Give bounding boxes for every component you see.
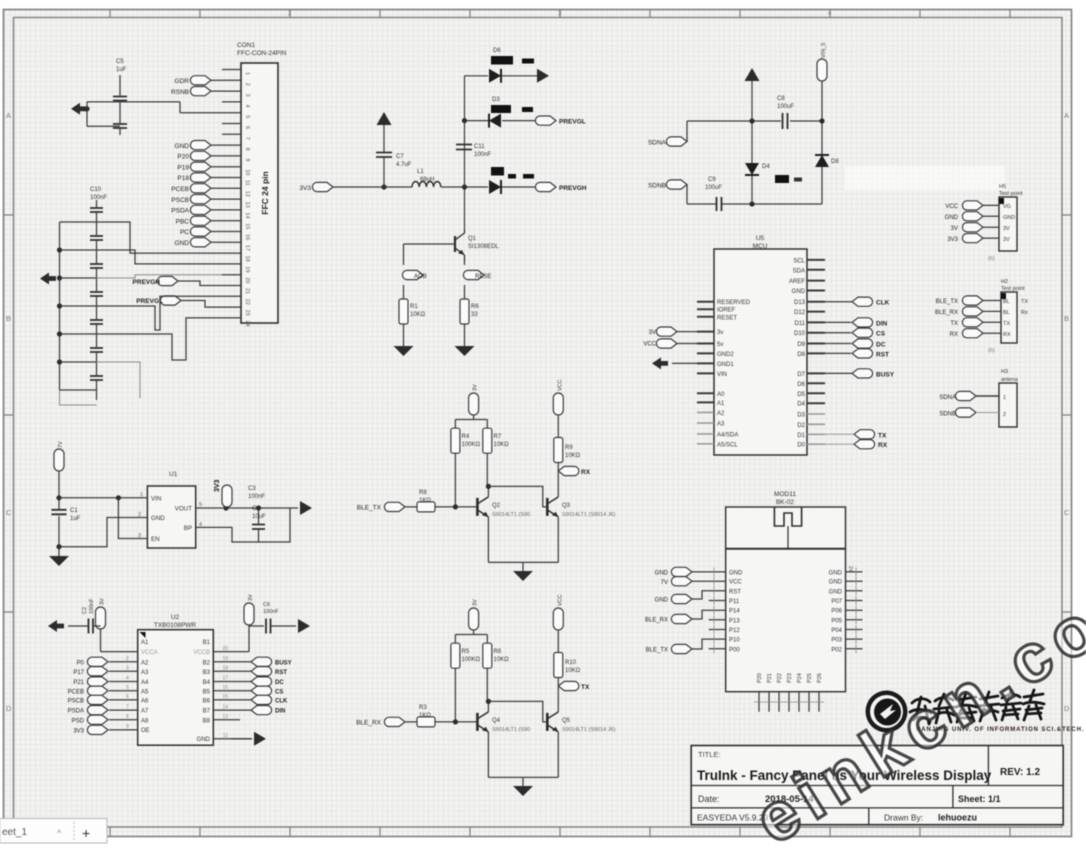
svg-text:A4/SDA: A4/SDA	[717, 432, 738, 438]
wire Q5 emitter	[557, 732, 559, 778]
svg-text:A: A	[1064, 111, 1069, 120]
svg-text:RST: RST	[275, 670, 287, 676]
net label RX	[854, 440, 875, 449]
svg-text:1: 1	[244, 72, 250, 75]
wire BP	[196, 508, 290, 542]
svg-text:100uF: 100uF	[777, 104, 794, 110]
net pill AOB on base	[402, 270, 423, 279]
wire row1	[465, 75, 539, 77]
svg-text:33: 33	[471, 312, 478, 318]
svg-text:SI1308EDL: SI1308EDL	[468, 244, 499, 250]
net pill PSCB pin13	[190, 195, 211, 204]
svg-text:P07: P07	[831, 599, 842, 605]
module MOD11 left pin ticks	[713, 567, 715, 653]
svg-text:BK-02: BK-02	[776, 499, 794, 506]
svg-text:BUSY: BUSY	[876, 371, 895, 378]
svg-text:1uF: 1uF	[116, 67, 127, 73]
university name calligraphy char 6	[1023, 690, 1044, 720]
svg-text:100nF: 100nF	[90, 195, 107, 201]
svg-text:5v: 5v	[717, 342, 723, 348]
svg-text:P14: P14	[729, 609, 740, 615]
net pill CS B5	[251, 686, 272, 695]
svg-text:B4: B4	[203, 680, 211, 686]
net label CLK	[852, 297, 873, 306]
svg-text:14: 14	[222, 704, 228, 710]
svg-text:RST: RST	[876, 351, 889, 358]
svg-text:11: 11	[223, 733, 228, 739]
resistor R8	[417, 502, 435, 512]
svg-text:SDA: SDA	[793, 268, 805, 274]
svg-text:R6: R6	[471, 304, 479, 310]
wire GND2 to RST pin	[692, 591, 709, 599]
svg-text:PC: PC	[180, 229, 189, 236]
wire pin22 route	[97, 296, 223, 330]
svg-text:BLE_RX: BLE_RX	[645, 618, 668, 624]
wire C7 top	[383, 125, 385, 152]
svg-text:GND: GND	[792, 289, 806, 295]
svg-text:D8: D8	[797, 352, 805, 358]
svg-text:D13: D13	[794, 300, 806, 306]
wire VOUT	[196, 507, 298, 509]
svg-text:3V: 3V	[473, 384, 479, 391]
power flag above C7	[377, 112, 392, 125]
resistor R7	[483, 428, 492, 453]
net flag 3V vpill VCCB	[244, 603, 254, 625]
svg-text:11: 11	[244, 180, 250, 186]
IC U2 left pin stubs	[109, 652, 138, 730]
svg-text:DC: DC	[275, 680, 284, 686]
svg-text:P21: P21	[767, 673, 773, 683]
svg-text:P17: P17	[73, 670, 84, 676]
wire diode D5 to pill	[502, 186, 535, 188]
svg-text:PSCB: PSCB	[171, 197, 189, 204]
wire pin20 route	[97, 275, 223, 278]
svg-text:P26: P26	[817, 673, 823, 683]
wire R5 bottom to base	[455, 668, 487, 722]
svg-text:3: 3	[244, 94, 250, 97]
net flag 3V3 vertical pill	[222, 485, 232, 507]
wire Q4 collector	[487, 701, 489, 712]
svg-text:P22: P22	[777, 673, 783, 683]
svg-text:VIN: VIN	[717, 372, 727, 378]
sheet tab	[0, 819, 107, 844]
svg-text:A7: A7	[141, 709, 149, 715]
svg-text:R7: R7	[494, 434, 502, 440]
power flag VGH right arrow	[537, 69, 549, 83]
power flag right VOUT	[300, 501, 312, 515]
wire center rail	[751, 81, 753, 204]
module MOD11 left pin stubs	[709, 572, 726, 649]
svg-text:3: 3	[126, 666, 129, 672]
module MOD11 bottom pin ticks	[754, 701, 824, 703]
wire PREVGH to pin21	[178, 281, 222, 286]
svg-text:RESE: RESE	[475, 274, 491, 280]
svg-text:A1: A1	[141, 640, 149, 646]
svg-text:BLE_TX: BLE_TX	[646, 648, 668, 654]
svg-text:Test point: Test point	[999, 191, 1023, 197]
wire emitter rail	[488, 562, 558, 571]
header H2 right notes	[1021, 299, 1028, 316]
svg-text:19: 19	[244, 266, 250, 272]
wire emitter rail	[488, 777, 558, 786]
svg-text:TXB0108PWR: TXB0108PWR	[154, 622, 197, 629]
svg-text:10KΩ: 10KΩ	[494, 442, 510, 448]
wire pill to R8	[405, 506, 417, 508]
svg-text:1: 1	[1003, 395, 1006, 401]
junction rail main	[462, 184, 467, 189]
svg-text:17: 17	[244, 245, 250, 251]
svg-text:R10: R10	[565, 660, 577, 666]
wire row2	[465, 120, 538, 122]
svg-text:8: 8	[126, 714, 129, 720]
IC U5 right pin names	[789, 258, 806, 448]
bottom whitespace	[0, 843, 1086, 854]
net label DIN	[852, 318, 873, 327]
transistor Q1	[454, 236, 456, 252]
net pill GND pin17	[190, 238, 211, 247]
capacitor C7 plates	[376, 153, 392, 158]
svg-text:U1: U1	[169, 471, 178, 478]
svg-text:3V: 3V	[473, 599, 479, 606]
wire Q3 emitter	[557, 517, 559, 563]
svg-text:VCC: VCC	[643, 342, 656, 348]
wire base pill to R1	[403, 285, 405, 299]
module MOD11 bottom pin stubs	[759, 692, 819, 712]
svg-text:6: 6	[244, 126, 250, 129]
svg-text:6: 6	[126, 694, 129, 700]
net flag 7V vertical pill	[54, 449, 64, 471]
svg-text:1KΩ: 1KΩ	[419, 713, 431, 719]
svg-text:P00: P00	[729, 647, 740, 653]
diode D6 body mark	[491, 56, 513, 65]
university logo ring	[866, 691, 908, 733]
svg-text:TX: TX	[581, 684, 590, 691]
svg-text:13: 13	[222, 714, 228, 720]
svg-text:4.7uF: 4.7uF	[396, 162, 412, 168]
svg-text:3V: 3V	[1003, 237, 1010, 243]
junction EN branch	[116, 495, 121, 500]
wire PREVGL to pin23	[181, 301, 222, 308]
svg-text:DC: DC	[876, 342, 886, 349]
wire pin3	[211, 90, 222, 92]
net label TX	[854, 430, 875, 439]
svg-text:S9014LT1 (S90: S9014LT1 (S90	[492, 727, 530, 733]
ground flag left of C5	[71, 103, 87, 115]
wire C6 right	[271, 625, 297, 627]
wires H2	[983, 301, 1001, 334]
svg-text:A3: A3	[141, 670, 149, 676]
diode D3 dash	[522, 107, 533, 112]
svg-text:BLE_RX: BLE_RX	[935, 310, 958, 316]
svg-text:TX: TX	[950, 321, 958, 327]
svg-text:D: D	[6, 704, 12, 713]
header H2 body	[1001, 292, 1017, 343]
svg-text:TX: TX	[878, 432, 887, 439]
svg-text:17: 17	[222, 676, 228, 682]
svg-text:100KΩ: 100KΩ	[462, 657, 481, 663]
wire right rail	[821, 81, 823, 204]
wire EN branch	[118, 498, 147, 539]
connector CON1 pin numbers	[244, 72, 250, 327]
svg-text:C11: C11	[474, 144, 485, 150]
transistor Q5	[547, 712, 558, 732]
svg-text:DIN: DIN	[275, 709, 285, 715]
svg-text:VCC: VCC	[557, 594, 563, 606]
connector CON1 pin stubs 1-24	[222, 70, 241, 318]
wire C5 top loop	[87, 75, 222, 135]
wire Q2 collector	[487, 486, 489, 497]
svg-text:VIN: VIN	[151, 495, 161, 502]
svg-text:D2: D2	[797, 423, 805, 429]
diode D3 body mark	[491, 105, 511, 113]
wire Q4 emitter	[487, 732, 489, 778]
diode D4 body mark	[775, 175, 789, 183]
wire C4 leads	[258, 508, 260, 542]
svg-text:A6: A6	[141, 699, 149, 705]
title block drawnby divider	[868, 808, 870, 825]
svg-text:A8: A8	[141, 718, 149, 724]
title block sheet divider	[952, 786, 954, 808]
net pill TX output	[558, 681, 579, 690]
wire D0 to RX	[825, 443, 854, 445]
wire VCCB	[213, 625, 264, 652]
svg-text:RX: RX	[950, 332, 958, 338]
svg-text:9: 9	[126, 724, 129, 730]
module MOD11 body	[726, 507, 846, 692]
svg-text:D5: D5	[797, 392, 805, 398]
left row ticks	[4, 215, 14, 612]
module MOD11 bottom pin names rotated	[757, 673, 823, 683]
svg-text:B: B	[1064, 314, 1069, 323]
svg-text:D1: D1	[797, 433, 805, 439]
boost rail vertical	[464, 76, 466, 230]
svg-text:PREVGL: PREVGL	[136, 298, 163, 305]
junction base R4	[453, 504, 458, 509]
svg-text:GND: GND	[151, 515, 165, 522]
resistor R5	[451, 643, 460, 668]
svg-text:B2: B2	[203, 660, 211, 666]
header H2 pin names	[1003, 299, 1011, 338]
wire R6 to ground	[464, 324, 466, 346]
svg-text:GND: GND	[655, 598, 669, 604]
svg-text:3V3: 3V3	[947, 237, 958, 243]
svg-text:GND: GND	[829, 580, 843, 586]
svg-text:5: 5	[244, 115, 250, 118]
svg-text:VCCB: VCCB	[193, 650, 210, 656]
svg-text:D12: D12	[794, 310, 806, 316]
svg-text:PSCB: PSCB	[68, 699, 84, 705]
svg-text:R8: R8	[419, 490, 427, 496]
ground shifter2	[513, 786, 533, 796]
svg-text:REV: 1.2: REV: 1.2	[1000, 767, 1040, 778]
wire D8 to RST	[825, 352, 851, 354]
svg-text:CLK: CLK	[275, 699, 288, 705]
capacitor chain vertical wire	[96, 200, 98, 400]
IC U5 right pin stubs	[807, 260, 825, 403]
svg-text:PSDA: PSDA	[68, 709, 84, 715]
header H5 pin names	[1003, 204, 1015, 243]
wire ground to GND1	[672, 362, 697, 364]
ground shifter1	[513, 571, 533, 581]
svg-text:P11: P11	[729, 599, 740, 605]
diode D4	[745, 163, 759, 175]
svg-text:3: 3	[138, 533, 141, 539]
svg-text:RSNB: RSNB	[171, 89, 189, 96]
IC U2 pin1 mark	[140, 632, 146, 638]
svg-text:RESERVED: RESERVED	[717, 300, 751, 306]
header H2 pin1 mark	[1001, 293, 1006, 299]
wire Q1 base	[404, 244, 456, 265]
svg-text:18: 18	[244, 256, 250, 262]
wire Q1 emitter	[464, 262, 466, 299]
svg-text:C2: C2	[82, 607, 88, 614]
right row ticks	[1062, 215, 1072, 612]
svg-text:P06: P06	[831, 609, 842, 615]
svg-text:B3: B3	[203, 670, 211, 676]
svg-text:D0: D0	[797, 443, 805, 449]
svg-text:GND: GND	[175, 240, 190, 247]
svg-text:GND: GND	[729, 570, 743, 576]
net label DC	[852, 339, 873, 348]
svg-text:3V: 3V	[951, 226, 958, 232]
svg-text:9: 9	[244, 158, 250, 161]
resistor R6	[460, 299, 469, 324]
svg-text:C10: C10	[90, 187, 102, 193]
wires GND/7V to pins	[692, 572, 709, 581]
junction C5 left	[84, 106, 89, 111]
svg-text:23: 23	[244, 310, 250, 316]
svg-text:Test point: Test point	[1001, 286, 1025, 292]
svg-text:P10: P10	[729, 638, 740, 644]
IC U2 left pin numbers	[126, 656, 129, 730]
svg-text:3v: 3v	[717, 330, 723, 336]
svg-text:100nF: 100nF	[263, 609, 279, 615]
IC U1 body	[147, 486, 195, 548]
net label RST	[852, 349, 873, 358]
svg-text:D: D	[1064, 704, 1070, 713]
university name calligraphy char 1	[910, 697, 931, 724]
svg-text:P18: P18	[177, 175, 189, 182]
svg-text:CS: CS	[275, 689, 283, 695]
module MOD11 shield divider	[726, 548, 846, 550]
svg-text:GND2: GND2	[717, 352, 734, 358]
svg-text:VG: VG	[1003, 204, 1011, 210]
svg-text:16: 16	[244, 234, 250, 240]
IC U2 right pin names	[193, 640, 210, 743]
connector CON1 body	[241, 63, 278, 323]
net label PREVGH pill	[535, 182, 556, 191]
svg-text:14: 14	[244, 212, 250, 218]
svg-text:P21: P21	[73, 680, 84, 686]
junction VIN node	[56, 495, 61, 500]
svg-text:VCC: VCC	[945, 204, 958, 210]
wire VCC to R10	[557, 630, 559, 653]
svg-text:A2: A2	[141, 660, 149, 666]
svg-text:B5: B5	[203, 689, 211, 695]
svg-text:EN: EN	[151, 536, 160, 543]
net pill PC pin16	[190, 227, 211, 236]
resistor R9	[554, 438, 563, 463]
svg-text:BLE_RX: BLE_RX	[356, 720, 382, 727]
net flag VIN vertical pill	[817, 59, 827, 81]
svg-text:5: 5	[126, 685, 129, 691]
svg-text:D4: D4	[762, 164, 770, 170]
transistor Q3	[547, 497, 558, 517]
svg-text:R3: R3	[419, 705, 427, 711]
svg-text:2: 2	[1003, 412, 1006, 418]
sheet tab separator	[73, 822, 75, 840]
wire D11 to DIN	[825, 321, 851, 323]
svg-text:R6: R6	[494, 649, 502, 655]
svg-text:S9014LT1 (S9014 J6): S9014LT1 (S9014 J6)	[562, 512, 616, 518]
svg-text:GND: GND	[175, 143, 190, 150]
junction at C7	[381, 184, 386, 189]
svg-text:1: 1	[140, 492, 143, 498]
power flag top	[745, 68, 760, 81]
title block row line 1	[691, 785, 1063, 787]
net label RSNB pin3	[190, 87, 211, 96]
wire D7 to BUSY	[825, 372, 852, 374]
wire collector to Q3 base	[488, 486, 547, 507]
svg-text:P04: P04	[831, 628, 842, 634]
net label PREVGL pill	[160, 296, 181, 305]
svg-text:RX: RX	[581, 469, 591, 476]
wire 3V to resistor tops	[455, 630, 487, 643]
svg-text:CS: CS	[876, 331, 886, 338]
svg-text:16: 16	[222, 685, 228, 691]
svg-text:20: 20	[244, 277, 250, 283]
ground flag left of C2	[48, 620, 64, 632]
wire R1 to ground	[403, 324, 405, 346]
university name calligraphy char 5	[1001, 691, 1021, 720]
header H3 pin names	[1003, 395, 1006, 418]
inductor L1	[412, 182, 441, 188]
svg-text:D8: D8	[831, 159, 839, 165]
svg-text:PCEB: PCEB	[68, 689, 84, 695]
svg-text:BUSY: BUSY	[275, 660, 292, 666]
header H5 pin1 mark	[999, 198, 1004, 204]
svg-text:VIN_5: VIN_5	[821, 43, 827, 58]
left bus wire	[60, 222, 97, 390]
IC U2 body	[138, 630, 214, 746]
svg-text:Q2: Q2	[492, 503, 501, 509]
svg-text:10: 10	[244, 169, 250, 175]
diode D3 symbol	[489, 114, 501, 128]
svg-text:RST: RST	[729, 589, 741, 595]
svg-text:OE: OE	[141, 728, 150, 734]
svg-text:VCC: VCC	[557, 379, 563, 391]
svg-text:PCEB: PCEB	[171, 186, 189, 193]
title block rev divider	[987, 746, 989, 786]
wire SDNA to H3	[976, 395, 999, 397]
wire collector to Q5 base	[488, 701, 547, 722]
junction rail row2	[462, 118, 467, 123]
resistor R3	[417, 717, 435, 727]
net pill PBC pin15	[190, 216, 211, 225]
svg-text:U5: U5	[756, 235, 765, 242]
net pill P20 pin9	[190, 151, 211, 160]
net pill GND pin8	[190, 141, 211, 150]
svg-text:100nF: 100nF	[89, 598, 95, 614]
svg-text:Sheet: 1/1: Sheet: 1/1	[958, 794, 1001, 804]
svg-text:P13: P13	[729, 618, 740, 624]
diode D6 symbol	[489, 69, 501, 83]
svg-text:S9014LT1 (S90: S9014LT1 (S90	[492, 512, 530, 518]
svg-text:BL: BL	[1003, 299, 1010, 305]
junction VOUT 3V3	[223, 505, 228, 510]
net pill DC B4	[251, 677, 272, 686]
svg-text:P25: P25	[807, 673, 813, 683]
